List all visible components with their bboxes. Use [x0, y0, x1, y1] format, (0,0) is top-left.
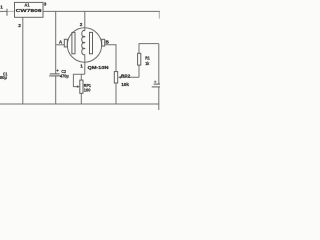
svg-text:3: 3	[44, 2, 47, 7]
wire sensor pin 2 drop	[84, 11, 86, 30]
C2 polarity plus	[56, 70, 59, 72]
left electrode plate	[72, 32, 75, 53]
svg-text:2: 2	[80, 22, 83, 27]
svg-text:10k: 10k	[121, 82, 129, 87]
svg-text:470μ: 470μ	[60, 73, 69, 78]
RP2 wiper arrowhead	[118, 76, 121, 79]
wire node vertical upper	[55, 11, 57, 74]
wire input to pin 1	[0, 10, 7, 12]
potentiometer RP2 box	[114, 72, 117, 83]
wire pin 2 ground drop	[22, 17, 24, 104]
svg-text:100μ: 100μ	[0, 75, 7, 80]
ground rail	[0, 103, 159, 105]
svg-text:1k: 1k	[145, 61, 149, 66]
regulator A1 box	[15, 2, 44, 17]
svg-text:A1: A1	[24, 3, 30, 8]
gas sensor circle	[67, 28, 101, 62]
wire RP1 bottom	[80, 93, 82, 104]
heater coil	[82, 30, 85, 54]
left pin tab	[64, 39, 67, 47]
wire R1 top to right branch	[139, 44, 159, 54]
RP1 wiper jog	[73, 74, 84, 86]
wire B to RP2	[105, 45, 116, 72]
capacitor C3 plates	[154, 83, 160, 85]
wire node A horizontal	[56, 44, 65, 46]
svg-text:QM-10N: QM-10N	[88, 65, 110, 70]
capacitor C2 plates	[50, 73, 60, 75]
RP2 wiper from R1	[120, 76, 140, 78]
potentiometer RP1 box	[80, 80, 83, 93]
svg-text:100: 100	[84, 88, 91, 93]
right branch upper	[158, 44, 160, 85]
svg-text:R1: R1	[145, 55, 150, 60]
top rail continuation stub	[158, 11, 160, 18]
top rail from pin 3	[43, 10, 160, 12]
wire sensor pin 1 drop	[84, 54, 86, 74]
svg-text:RP2: RP2	[121, 73, 131, 78]
svg-text:1: 1	[0, 5, 3, 10]
wire R1 bottom	[138, 65, 140, 77]
svg-text:CW7806: CW7806	[16, 8, 43, 13]
C3 polarity plus	[154, 81, 157, 83]
svg-text:1: 1	[80, 63, 83, 68]
svg-text:2: 2	[18, 23, 21, 28]
wire node vertical lower	[55, 76, 57, 104]
right electrode plate	[90, 32, 93, 53]
resistor R1 box	[138, 53, 141, 65]
RP1 feed wire	[80, 74, 82, 80]
right branch lower	[158, 87, 160, 110]
RP1 wiper arrowhead	[77, 85, 80, 88]
right pin tab	[102, 39, 105, 46]
input terminal bar	[6, 9, 8, 16]
wire RP2 bottom	[115, 83, 117, 104]
